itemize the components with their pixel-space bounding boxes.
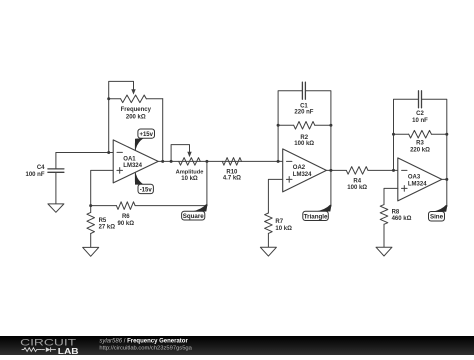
CircuitLab logo diode triangle	[46, 347, 51, 352]
svg-text:100 kΩ: 100 kΩ	[294, 141, 314, 147]
svg-text:10 kΩ: 10 kΩ	[275, 226, 292, 232]
ground (below C4)	[48, 204, 64, 212]
svg-text:-15v: -15v	[140, 187, 153, 193]
OA1 V+ pin	[134, 143, 136, 151]
resistor R4 100k	[346, 167, 368, 175]
svg-text:LM324: LM324	[293, 172, 312, 178]
svg-text:R3: R3	[416, 141, 424, 147]
wire: OA1 output rail	[158, 160, 283, 162]
wire: feedback right vertical to OA1 output	[162, 99, 164, 162]
wire: sine output tap down	[446, 179, 448, 206]
svg-text:LM324: LM324	[123, 163, 142, 169]
OA1 minus pin mark	[117, 151, 122, 153]
svg-text:10 kΩ: 10 kΩ	[181, 176, 198, 182]
wire: OA2 output to R4	[326, 169, 346, 171]
capacitor C4	[48, 153, 64, 204]
OA1 V- pin	[134, 173, 136, 182]
wire: OA3 output	[442, 178, 447, 180]
op-amp OA2 LM324 body	[283, 149, 327, 192]
resistor R6 90k	[116, 202, 135, 210]
svg-text:460 kΩ: 460 kΩ	[392, 216, 412, 222]
svg-text:100 kΩ: 100 kΩ	[347, 185, 367, 191]
svg-text:R5: R5	[99, 218, 107, 224]
wire: R4 to OA3 minus	[368, 169, 398, 171]
svg-text:Amplitude: Amplitude	[176, 170, 204, 176]
svg-text:Square: Square	[183, 213, 205, 220]
wire: OA3 plus input down to R8	[384, 188, 398, 204]
wire: triangle output tap down	[330, 170, 332, 206]
svg-text:R4: R4	[353, 179, 361, 185]
capacitor C1 220nF	[302, 82, 305, 99]
svg-text:C2: C2	[416, 111, 424, 117]
svg-text:R7: R7	[275, 219, 283, 225]
CircuitLab logo squiggle (resistor + diode)	[22, 347, 56, 352]
node flag Triangle	[303, 205, 332, 221]
svg-text:R6: R6	[122, 214, 130, 220]
svg-text:OA3: OA3	[408, 175, 421, 181]
svg-text:OA1: OA1	[123, 157, 136, 163]
wire: bottom feedback rail	[91, 205, 117, 207]
OA2 plus pin mark	[286, 177, 292, 183]
op-amp OA1 LM324 body	[113, 140, 158, 183]
wire: OA3 feedback left vertical	[394, 99, 419, 170]
OA1 plus pin mark	[117, 168, 123, 174]
svg-text:LM324: LM324	[408, 181, 427, 187]
svg-text:27 kΩ: 27 kΩ	[99, 225, 116, 231]
svg-text:200 kΩ: 200 kΩ	[126, 115, 146, 121]
-15v power flag	[135, 173, 153, 194]
resistor R10 4.7k	[222, 158, 241, 166]
svg-text:220 nF: 220 nF	[294, 109, 313, 115]
resistor R3 220k	[394, 130, 447, 138]
svg-text:4.7 kΩ: 4.7 kΩ	[223, 176, 241, 182]
ground (below R7)	[260, 247, 276, 256]
svg-text:Frequency: Frequency	[121, 107, 152, 113]
svg-text:http://circuitlab.com/ch23z597: http://circuitlab.com/ch23z597gs5ga	[99, 346, 192, 352]
node flag Sine	[429, 205, 448, 221]
potentiometer Amplitude wiper arrowhead	[187, 152, 191, 157]
node flag Square	[182, 204, 208, 220]
svg-text:100 nF: 100 nF	[25, 172, 44, 178]
svg-text:Sine: Sine	[430, 214, 444, 221]
OA2 minus pin mark	[287, 160, 292, 162]
svg-text:+15v: +15v	[139, 132, 153, 138]
resistor R7 10k	[265, 213, 273, 247]
svg-text:C4: C4	[37, 165, 45, 171]
svg-text:LAB: LAB	[58, 347, 79, 355]
svg-text:sylar586 / Frequency Generator: sylar586 / Frequency Generator	[99, 338, 188, 344]
capacitor C2 10nF	[419, 91, 422, 108]
resistor R8 460k	[380, 205, 388, 248]
potentiometer Frequency 200k: wiper loop wire	[109, 81, 134, 98]
resistor R5 27k	[87, 206, 95, 248]
svg-text:90 kΩ: 90 kΩ	[118, 221, 135, 227]
op-amp OA3 LM324 body	[398, 158, 442, 201]
ground (below R8)	[376, 247, 392, 256]
wire: OA2 feedback left vertical	[278, 91, 302, 162]
ground (below R5)	[83, 247, 99, 256]
potentiometer Amplitude 10k: body	[179, 158, 201, 166]
potentiometer Frequency wiper arrowhead	[131, 89, 135, 94]
wire: input net to OA1 inverting input	[56, 152, 113, 154]
svg-text:OA2: OA2	[293, 165, 306, 171]
resistor R2 100k	[278, 122, 331, 130]
svg-text:220 kΩ: 220 kΩ	[410, 148, 430, 154]
OA3 plus pin mark	[402, 186, 408, 192]
svg-text:10 nF: 10 nF	[412, 118, 428, 124]
wire: C1 to right vertical	[305, 91, 331, 171]
wire: feedback left vertical (minus node up to pot)	[108, 99, 110, 153]
+15v power flag	[135, 129, 155, 151]
wire: C2 to right vertical	[422, 99, 447, 179]
wire: OA2 plus input down to R7	[268, 179, 282, 213]
wire: OA1 plus input to divider	[91, 170, 114, 205]
svg-text:Triangle: Triangle	[304, 213, 328, 220]
potentiometer Frequency 200k: body	[109, 95, 163, 103]
OA3 minus pin mark	[402, 169, 407, 171]
potentiometer Amplitude 10k: wiper loop	[171, 145, 189, 162]
wire: square output tap down	[206, 161, 208, 205]
svg-text:R2: R2	[300, 135, 308, 141]
svg-text:R8: R8	[392, 210, 400, 216]
junction dots	[89, 97, 448, 207]
